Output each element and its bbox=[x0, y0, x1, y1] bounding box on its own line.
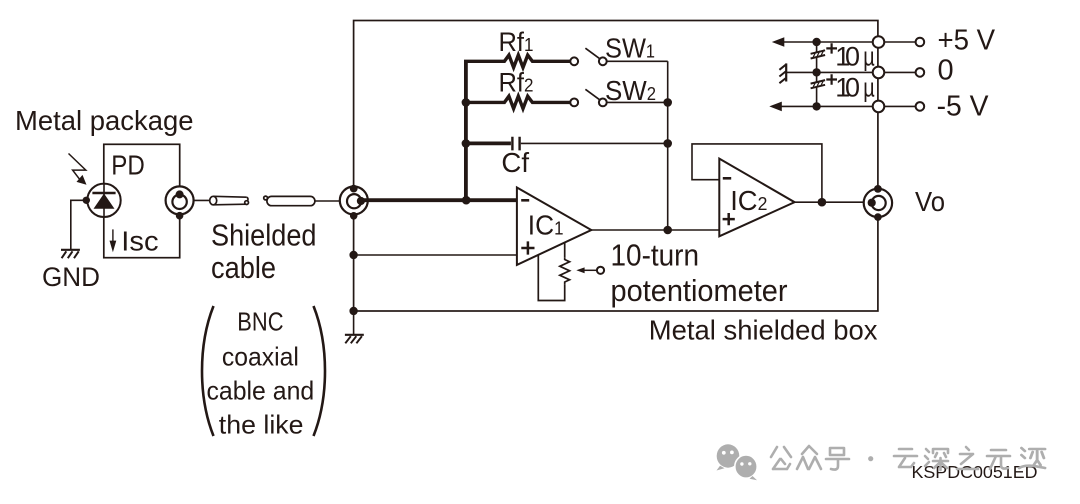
svg-text:0: 0 bbox=[845, 42, 860, 72]
resistor Rf2 bbox=[466, 96, 570, 108]
plus sign cap2 bbox=[826, 74, 837, 84]
SW2 contacts bbox=[570, 99, 578, 107]
light arrowhead bbox=[77, 175, 87, 185]
wire through PD bbox=[103, 184, 105, 217]
GND ground bar bbox=[61, 249, 80, 251]
node -5V junction bbox=[812, 102, 820, 110]
wire feedback right vertical bbox=[667, 61, 669, 230]
junction box-left bottom corner bbox=[349, 307, 357, 315]
IC1 minus sign bbox=[521, 199, 529, 202]
char ji bbox=[1019, 448, 1045, 468]
potentiometer zigzag bbox=[560, 257, 570, 284]
wire IC2 feedback loop bbox=[692, 144, 822, 202]
node plus input on box edge bbox=[349, 251, 357, 259]
Cf plates bbox=[512, 137, 519, 151]
svg-text:0: 0 bbox=[845, 73, 860, 103]
svg-text:GND: GND bbox=[42, 262, 100, 292]
node +5V junction bbox=[812, 38, 820, 46]
wechat icon bubble 1 bbox=[717, 444, 740, 470]
arrow -5V feed bbox=[769, 102, 782, 112]
arrow +5V feed bbox=[772, 37, 785, 47]
capacitor C- 10u bbox=[816, 72, 818, 106]
wire IC2 output bbox=[795, 201, 872, 203]
thick input signal line bbox=[359, 198, 517, 202]
shielded cable segment 1 bbox=[210, 196, 249, 205]
svg-text:PD: PD bbox=[111, 149, 145, 180]
svg-text:-5 V: -5 V bbox=[937, 90, 990, 122]
svg-text:the like: the like bbox=[219, 409, 304, 439]
PD cathode bar bbox=[92, 192, 115, 195]
svg-text:0: 0 bbox=[938, 55, 954, 87]
char wu bbox=[987, 450, 1010, 469]
plus sign cap1 bbox=[826, 43, 837, 53]
light arrow bbox=[69, 154, 86, 181]
box ground bar bbox=[345, 334, 364, 336]
wire IC1 output bbox=[591, 229, 719, 231]
wire SW2 to right bus bbox=[607, 101, 668, 103]
node IC2 output junction bbox=[818, 198, 827, 207]
wire IC1 plus input bbox=[354, 254, 517, 256]
IC1 plus sign bbox=[521, 241, 534, 254]
svg-text:SW2: SW2 bbox=[605, 75, 656, 106]
box ground stub bbox=[353, 311, 355, 335]
potentiometer body bbox=[538, 243, 564, 301]
IC2 plus sign bbox=[723, 213, 735, 225]
BNC connector on package bbox=[166, 186, 194, 214]
wire 0V rail bbox=[786, 71, 873, 73]
switch SW2 bbox=[585, 89, 599, 100]
GND ground hatches bbox=[62, 251, 79, 258]
svg-text:cable: cable bbox=[211, 250, 276, 285]
shielded cable segment 2 bbox=[264, 196, 315, 206]
terminal +5V bbox=[884, 41, 916, 43]
wiper terminal circle bbox=[597, 267, 604, 274]
PD anode triangle bbox=[94, 194, 115, 209]
char yun bbox=[894, 449, 917, 467]
op-amp IC2 bbox=[719, 159, 794, 237]
resistor Rf1 bbox=[464, 55, 570, 67]
svg-text:SW1: SW1 bbox=[605, 33, 655, 64]
svg-text:Cf: Cf bbox=[501, 147, 529, 178]
PD metal package rectangle bbox=[104, 144, 180, 257]
svg-text:µ: µ bbox=[863, 73, 875, 103]
wire -5V rail bbox=[781, 105, 873, 107]
svg-text:Shielded: Shielded bbox=[211, 218, 317, 253]
node input/bus junction bbox=[462, 196, 471, 205]
thick feedback bus bbox=[464, 61, 468, 200]
capacitor Cf bbox=[466, 141, 511, 145]
svg-text:Rf2: Rf2 bbox=[499, 68, 534, 98]
Isc current arrow bbox=[112, 229, 114, 242]
BNC connector on box input bbox=[340, 187, 368, 215]
capacitor C+ 10u bbox=[816, 42, 818, 72]
photodiode circle bbox=[87, 184, 120, 217]
node SW2 right bbox=[663, 98, 672, 107]
SW1 contacts bbox=[570, 57, 578, 65]
svg-text:coaxial: coaxial bbox=[222, 342, 299, 372]
watermark chinese text 公众号 · 云深之无迹 bbox=[771, 446, 1045, 470]
wire Cf to right bus bbox=[521, 142, 668, 144]
svg-text:cable and: cable and bbox=[207, 375, 315, 405]
svg-text:BNC: BNC bbox=[237, 306, 283, 336]
potentiometer wiper arrow bbox=[583, 269, 598, 271]
IC2 minus sign bbox=[723, 177, 731, 180]
box ground hatches bbox=[345, 336, 362, 343]
Isc arrowhead bbox=[110, 241, 117, 253]
wire BNC to cable bbox=[194, 199, 210, 201]
svg-text:10-turn: 10-turn bbox=[611, 238, 700, 273]
svg-text:Isc: Isc bbox=[121, 226, 158, 257]
chassis ground bar 0V bbox=[785, 63, 787, 81]
svg-text:Metal shielded box: Metal shielded box bbox=[649, 315, 878, 346]
char zhong bbox=[797, 446, 821, 469]
node Rf2 junction bbox=[462, 98, 471, 107]
svg-text:Rf1: Rf1 bbox=[499, 27, 534, 57]
char zhi bbox=[957, 447, 978, 469]
wire +5V rail bbox=[783, 41, 873, 43]
parentheses bbox=[202, 306, 214, 436]
node feedback to output bbox=[663, 226, 672, 235]
char gong bbox=[771, 447, 791, 469]
terminal 0V bbox=[884, 71, 916, 73]
node Cf right bbox=[663, 139, 672, 148]
char hao bbox=[826, 448, 849, 470]
wire SW1 to right bus bbox=[607, 60, 668, 62]
svg-text:µ: µ bbox=[863, 42, 875, 72]
terminal -5V bbox=[884, 105, 916, 107]
BNC connector Vo bbox=[864, 189, 892, 217]
svg-text:potentiometer: potentiometer bbox=[611, 273, 788, 308]
node PD anode bbox=[83, 197, 90, 204]
wechat icon bubble 2 bbox=[735, 455, 757, 480]
op-amp IC1 bbox=[517, 188, 591, 265]
wire anode to ground bbox=[71, 200, 87, 250]
node 0V junction bbox=[812, 68, 820, 76]
separator dot bbox=[868, 456, 873, 461]
wiper arrowhead bbox=[576, 267, 584, 273]
char shen bbox=[925, 449, 948, 470]
chassis ground hatches 0V bbox=[779, 65, 785, 84]
svg-text:KSPDC0051ED: KSPDC0051ED bbox=[912, 462, 1038, 482]
wire cable to box BNC bbox=[315, 200, 340, 202]
svg-text:Metal package: Metal package bbox=[15, 105, 194, 136]
switch SW1 bbox=[585, 48, 599, 59]
node Cf junction bbox=[462, 139, 471, 148]
metal shielded box bbox=[354, 21, 878, 312]
svg-text:+5 V: +5 V bbox=[938, 24, 996, 56]
svg-text:Vo: Vo bbox=[915, 186, 945, 217]
